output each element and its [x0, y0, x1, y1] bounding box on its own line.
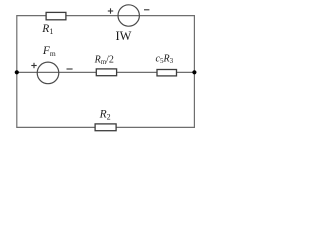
wire: left vertical [16, 15, 18, 128]
svg-text:IW: IW [116, 29, 132, 43]
polarity - of Fm [67, 68, 73, 70]
resistor c5R3 [157, 70, 177, 76]
junction node left (Fm branch to left rail) [15, 70, 19, 74]
svg-text:Fm: Fm [42, 45, 56, 58]
polarity + of top source [108, 8, 113, 13]
current source Fm [37, 62, 59, 84]
wire: right vertical [193, 15, 195, 128]
svg-text:R2: R2 [99, 109, 111, 122]
polarity + of Fm [31, 63, 36, 68]
svg-text:R1: R1 [41, 23, 53, 36]
wire: top horizontal (node between R1 and source) [17, 15, 195, 17]
resistor Rm/2 [96, 69, 116, 76]
wire: bottom horizontal [17, 126, 195, 128]
svg-text:c5R3: c5R3 [156, 54, 174, 66]
resistor R1 [46, 12, 66, 19]
polarity - of top source [144, 9, 149, 11]
junction node right (c5R3 branch to right rail) [192, 70, 196, 74]
voltage source 1W (top) [118, 5, 139, 26]
svg-text:Rm/2: Rm/2 [94, 54, 114, 66]
resistor R2 [95, 124, 116, 131]
wire: middle horizontal branch [17, 71, 195, 73]
